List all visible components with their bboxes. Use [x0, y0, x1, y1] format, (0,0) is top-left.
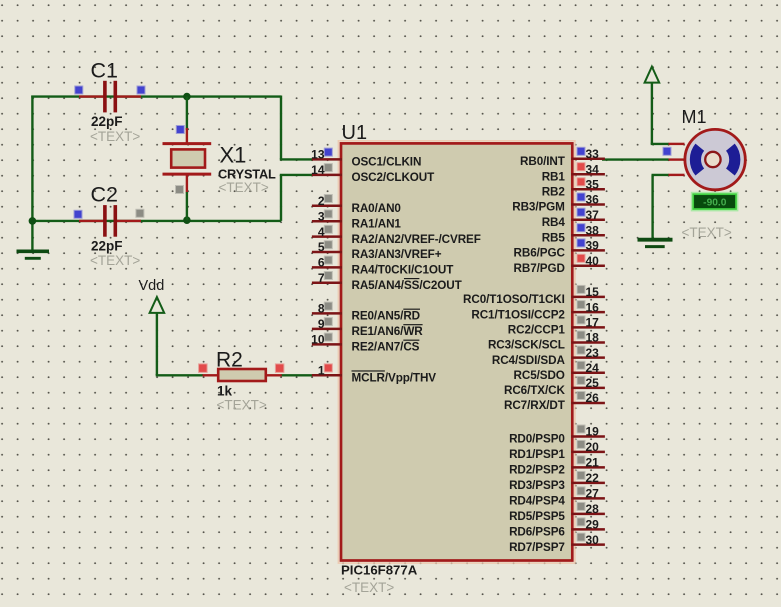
pin 7 RA5/AN4/SS/C2OUT: [312, 271, 463, 292]
svg-text:38: 38: [586, 223, 600, 237]
svg-text:RD5/PSP5: RD5/PSP5: [509, 510, 565, 523]
pin 22 RD3/PSP3: [509, 471, 605, 492]
wire left vertical C1-C2-ground: [31, 96, 33, 251]
pin 10 RE2/AN7/CS: [311, 333, 420, 354]
svg-text:X1: X1: [220, 143, 247, 168]
pin state indicator motor: [664, 148, 671, 155]
svg-text:33: 33: [586, 147, 600, 161]
svg-text:RA0/AN0: RA0/AN0: [352, 202, 402, 215]
svg-text:19: 19: [586, 425, 600, 439]
svg-text:1k: 1k: [217, 383, 233, 398]
svg-text:39: 39: [586, 239, 600, 253]
svg-text:6: 6: [318, 256, 325, 270]
svg-text:<TEXT>: <TEXT>: [682, 225, 732, 240]
svg-text:RB4: RB4: [542, 216, 566, 229]
svg-text:RD6/PSP6: RD6/PSP6: [509, 526, 565, 539]
svg-text:RD0/PSP0: RD0/PSP0: [509, 433, 565, 446]
svg-text:9: 9: [318, 317, 325, 331]
wire motor top horizontal: [651, 143, 669, 145]
pin 17 RC2/CCP1: [508, 316, 605, 337]
pin 19 RD0/PSP0: [509, 425, 605, 446]
svg-text:RB0/INT: RB0/INT: [520, 155, 566, 168]
svg-text:40: 40: [586, 254, 600, 268]
wire pin33 to motor: [602, 158, 669, 160]
svg-text:RB7/PGD: RB7/PGD: [514, 262, 565, 275]
svg-text:14: 14: [311, 163, 325, 177]
svg-text:RA5/AN4/SS/C2OUT: RA5/AN4/SS/C2OUT: [352, 279, 463, 292]
wire Vdd to R2: [156, 373, 158, 376]
svg-text:RE2/AN7/CS: RE2/AN7/CS: [352, 341, 420, 354]
svg-text:RA1/AN1: RA1/AN1: [352, 217, 402, 230]
svg-text:RB6/PGC: RB6/PGC: [514, 247, 566, 260]
resistor R2: [203, 369, 282, 381]
svg-text:M1: M1: [682, 107, 707, 127]
wire vertical to OSC2 pin14: [280, 175, 282, 221]
pin 4 RA2/AN2/VREF-/CVREF: [312, 225, 481, 246]
pin 3 RA1/AN1: [312, 209, 402, 230]
svg-text:RA4/T0CKI/C1OUT: RA4/T0CKI/C1OUT: [352, 264, 455, 277]
wire C2 bottom row: [31, 220, 281, 222]
capacitor C1: [79, 81, 141, 113]
svg-text:18: 18: [586, 331, 600, 345]
pin 23 RC4/SDI/SDA: [492, 346, 605, 367]
pin 26 RC7/RX/DT: [504, 391, 605, 412]
power Vdd symbol: [150, 297, 165, 375]
wire pin13 horizontal: [280, 158, 313, 160]
wire R2 to pin1: [281, 374, 313, 376]
svg-text:RB2: RB2: [542, 186, 566, 199]
svg-text:<TEXT>: <TEXT>: [217, 398, 267, 413]
svg-text:35: 35: [586, 178, 600, 192]
svg-text:RC4/SDI/SDA: RC4/SDI/SDA: [492, 354, 566, 367]
svg-text:RD2/PSP2: RD2/PSP2: [509, 464, 565, 477]
IC U1 PIC16F877A body: [338, 141, 575, 563]
pin 39 RB6/PGC: [514, 239, 605, 260]
svg-text:22pF: 22pF: [91, 239, 123, 254]
pin state indicator C1 left: [75, 87, 82, 94]
svg-text:<TEXT>: <TEXT>: [90, 253, 140, 268]
svg-text:RC2/CCP1: RC2/CCP1: [508, 324, 566, 337]
wire motor top supply vertical: [651, 83, 653, 144]
svg-text:RE1/AN6/WR: RE1/AN6/WR: [352, 325, 424, 338]
svg-text:3: 3: [318, 209, 325, 223]
svg-text:4: 4: [318, 225, 325, 239]
pin state indicator C2 left: [75, 211, 82, 218]
svg-text:17: 17: [586, 316, 600, 330]
svg-text:RB1: RB1: [542, 170, 566, 183]
svg-text:RA2/AN2/VREF-/CVREF: RA2/AN2/VREF-/CVREF: [352, 233, 481, 246]
pin state indicator X1 top: [177, 126, 184, 133]
svg-text:13: 13: [311, 148, 325, 162]
svg-text:OSC2/CLKOUT: OSC2/CLKOUT: [352, 171, 436, 184]
power symbol motor supply: [645, 67, 660, 83]
pin 30 RD7/PSP7: [509, 533, 605, 554]
pin 37 RB4: [542, 208, 605, 229]
pin 13 OSC1/CLKIN: [311, 148, 421, 169]
pin 25 RC6/TX/CK: [504, 376, 605, 397]
pin 14 OSC2/CLKOUT: [311, 163, 435, 184]
pin 38 RB5: [542, 223, 605, 244]
svg-text:PIC16F877A: PIC16F877A: [341, 563, 418, 578]
wire vertical to OSC1 pin13: [280, 96, 282, 160]
svg-text:22: 22: [586, 471, 600, 485]
junction node crystal bottom: [183, 216, 191, 224]
svg-text:22pF: 22pF: [91, 114, 123, 129]
wire C1 top row: [31, 95, 281, 97]
svg-text:2: 2: [318, 194, 325, 208]
svg-text:21: 21: [586, 456, 600, 470]
svg-text:8: 8: [318, 302, 325, 316]
svg-text:RB3/PGM: RB3/PGM: [512, 201, 565, 214]
svg-text:23: 23: [586, 346, 600, 360]
svg-text:7: 7: [318, 271, 325, 285]
capacitor C2: [79, 205, 141, 237]
svg-text:RD1/PSP1: RD1/PSP1: [509, 448, 565, 461]
svg-text:15: 15: [586, 285, 600, 299]
svg-text:MCLR/Vpp/THV: MCLR/Vpp/THV: [352, 371, 437, 384]
svg-text:27: 27: [586, 487, 600, 501]
pin 24 RC5/SDO: [514, 361, 605, 382]
svg-text:R2: R2: [216, 348, 243, 371]
pin 21 RD2/PSP2: [509, 456, 605, 477]
svg-text:OSC1/CLKIN: OSC1/CLKIN: [352, 156, 422, 169]
svg-text:<TEXT>: <TEXT>: [90, 129, 140, 144]
svg-text:RD4/PSP4: RD4/PSP4: [509, 495, 565, 508]
pin 40 RB7/PGD: [514, 254, 605, 275]
wire motor ground vertical: [651, 175, 653, 239]
svg-text:RC3/SCK/SCL: RC3/SCK/SCL: [488, 339, 565, 352]
svg-text:<TEXT>: <TEXT>: [219, 180, 269, 195]
pin state indicator R2 left: [199, 364, 207, 372]
pin 8 RE0/AN5/RD: [312, 302, 420, 323]
svg-text:RD7/PSP7: RD7/PSP7: [509, 541, 565, 554]
svg-text:RE0/AN5/RD: RE0/AN5/RD: [352, 310, 421, 323]
svg-text:C2: C2: [91, 183, 118, 207]
ground (motor): [638, 240, 673, 247]
wire motor bottom horizontal: [652, 174, 670, 176]
svg-text:<TEXT>: <TEXT>: [344, 580, 394, 595]
svg-text:RD3/PSP3: RD3/PSP3: [509, 479, 565, 492]
svg-text:10: 10: [311, 333, 325, 347]
svg-text:Vdd: Vdd: [139, 278, 165, 294]
svg-text:25: 25: [586, 376, 600, 390]
svg-text:RC7/RX/DT: RC7/RX/DT: [504, 399, 566, 412]
pin 16 RC1/T1OSI/CCP2: [471, 300, 605, 321]
svg-text:20: 20: [586, 440, 600, 454]
pin state indicator C2 right: [136, 210, 143, 217]
pin 34 RB1: [542, 162, 605, 183]
junction node C2 ground: [29, 217, 37, 225]
svg-text:RC0/T1OSO/T1CKI: RC0/T1OSO/T1CKI: [463, 293, 565, 306]
svg-text:24: 24: [586, 361, 600, 375]
pin 27 RD4/PSP4: [509, 487, 605, 508]
svg-text:RB5: RB5: [542, 231, 566, 244]
pin 15 RC0/T1OSO/T1CKI: [463, 285, 605, 306]
svg-text:28: 28: [586, 502, 600, 516]
wire pin14 horizontal: [280, 174, 313, 176]
pin 18 RC3/SCK/SCL: [488, 331, 605, 352]
pin 36 RB3/PGM: [512, 193, 605, 214]
pin 33 RB0/INT: [520, 147, 605, 168]
junction node crystal top: [183, 93, 191, 101]
pin 5 RA3/AN3/VREF+: [312, 240, 442, 261]
svg-text:RC1/T1OSI/CCP2: RC1/T1OSI/CCP2: [471, 308, 565, 321]
svg-text:29: 29: [586, 518, 600, 532]
svg-text:26: 26: [586, 391, 600, 405]
svg-text:RA3/AN3/VREF+: RA3/AN3/VREF+: [352, 248, 442, 261]
svg-text:5: 5: [318, 240, 325, 254]
pin 28 RD5/PSP5: [509, 502, 605, 523]
svg-text:34: 34: [586, 162, 600, 176]
motor M1: [669, 129, 746, 189]
pin 6 RA4/T0CKI/C1OUT: [312, 256, 454, 277]
pin 9 RE1/AN6/WR: [312, 317, 423, 338]
pin 35 RB2: [542, 178, 605, 199]
pin 29 RD6/PSP6: [509, 518, 605, 539]
svg-text:RC6/TX/CK: RC6/TX/CK: [504, 384, 565, 397]
crystal X1: [163, 97, 212, 221]
pin state indicator R2 right: [276, 364, 284, 372]
svg-text:37: 37: [586, 208, 600, 222]
pin 20 RD1/PSP1: [509, 440, 605, 461]
pin state indicator X1 bottom: [176, 186, 183, 193]
svg-text:1: 1: [318, 363, 325, 377]
svg-text:-90.0: -90.0: [703, 197, 727, 208]
svg-text:RC5/SDO: RC5/SDO: [514, 369, 565, 382]
pin 1 MCLR/Vpp/THV: [312, 363, 436, 384]
motor angle display: [692, 193, 737, 210]
svg-text:U1: U1: [342, 122, 368, 144]
ground (left): [17, 251, 50, 258]
pin 2 RA0/AN0: [312, 194, 402, 215]
svg-text:C1: C1: [91, 59, 118, 83]
svg-text:16: 16: [586, 300, 600, 314]
pin state indicator C1 right: [138, 87, 145, 94]
svg-text:30: 30: [586, 533, 600, 547]
svg-text:36: 36: [586, 193, 600, 207]
